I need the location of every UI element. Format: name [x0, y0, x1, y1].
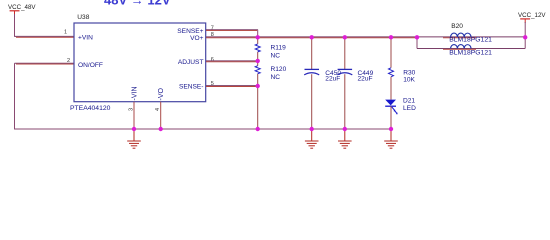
svg-text:-VIN: -VIN — [132, 87, 139, 101]
svg-text:10K: 10K — [403, 76, 415, 83]
ferrite bead B20 upper BLM18PG121 — [443, 23, 492, 44]
svg-text:PTEA404120: PTEA404120 — [70, 105, 111, 112]
svg-text:R30: R30 — [403, 69, 415, 76]
pin 2 number — [67, 58, 70, 64]
junction bus pin3 — [132, 127, 136, 131]
ground under C450 — [305, 129, 319, 148]
wire left vertical to ground bus — [14, 63, 16, 129]
junction bus C450 — [310, 127, 314, 131]
svg-text:BLM18PG121: BLM18PG121 — [449, 50, 492, 57]
svg-text:ADJUST: ADJUST — [178, 59, 204, 66]
pin 8 number — [211, 32, 214, 38]
svg-text:VCC_48V: VCC_48V — [8, 4, 36, 11]
junction VO+ / SENSE+ — [256, 35, 260, 39]
junction R30 top — [389, 35, 393, 39]
pin 7 number — [211, 26, 214, 32]
wire pin4 — [160, 102, 162, 129]
pin 4 number — [155, 108, 161, 111]
pin 6 number — [211, 57, 214, 63]
svg-text:NC: NC — [271, 52, 281, 59]
ground under C449 — [338, 129, 352, 148]
svg-text:3: 3 — [128, 108, 134, 111]
svg-text:+VIN: +VIN — [78, 35, 93, 42]
pin 1 number — [64, 30, 67, 36]
svg-text:R119: R119 — [271, 44, 287, 51]
resistor R120 — [255, 66, 286, 81]
junction C449 top — [343, 35, 347, 39]
svg-text:LED: LED — [403, 105, 416, 112]
wire resistor chain vertical — [257, 37, 259, 129]
svg-text:R120: R120 — [271, 66, 287, 73]
capacitor C450 — [304, 37, 341, 129]
svg-text:-VO: -VO — [158, 88, 165, 101]
junction bus D21 — [389, 127, 393, 131]
wire pin1 +VIN horizontal — [15, 35, 75, 38]
junction bus C449 — [343, 127, 347, 131]
wire pin5 SENSE- — [206, 85, 258, 88]
svg-text:ON/OFF: ON/OFF — [78, 62, 103, 69]
wire pin8 VO+ rail — [206, 36, 525, 39]
ferrite bead B20 lower BLM18PG121 — [443, 45, 492, 57]
wire pin2 ON/OFF horizontal — [15, 62, 75, 65]
junction C450 top — [310, 35, 314, 39]
ground under D21 — [384, 129, 398, 148]
svg-text:U38: U38 — [77, 14, 89, 21]
wire VCC_48V vertical — [14, 14, 16, 37]
junction SENSE- — [256, 84, 260, 88]
svg-text:NC: NC — [271, 74, 281, 81]
junction ADJUST — [256, 59, 260, 63]
power symbol VCC_12V — [518, 12, 546, 37]
svg-text:VCC_12V: VCC_12V — [518, 12, 546, 19]
ground under pin3 — [127, 129, 141, 148]
pin 3 number — [128, 108, 134, 111]
svg-text:48V → 12V: 48V → 12V — [104, 0, 171, 8]
svg-text:1: 1 — [64, 30, 67, 36]
junction bead branch — [415, 35, 419, 39]
junction bus resistor chain — [256, 127, 260, 131]
svg-text:VO+: VO+ — [190, 35, 204, 42]
wire pin7 SENSE+ — [206, 30, 258, 38]
svg-text:4: 4 — [155, 108, 161, 111]
title (clipped at top) — [104, 0, 171, 8]
junction bus pin4 — [159, 127, 163, 131]
power symbol VCC_48V — [8, 4, 36, 15]
wire bead lower branch — [417, 37, 525, 48]
svg-text:BLM18PG121: BLM18PG121 — [449, 37, 492, 44]
wire pin6 ADJUST — [206, 60, 258, 63]
svg-text:22uF: 22uF — [358, 76, 373, 83]
pin 5 number — [211, 81, 214, 87]
svg-text:2: 2 — [67, 58, 70, 64]
LED D21 — [385, 77, 416, 129]
svg-text:B20: B20 — [451, 23, 463, 30]
op-amp U38 (IC box PTEA404120) — [70, 14, 206, 112]
svg-text:D21: D21 — [403, 98, 415, 105]
wire pin3 — [133, 102, 135, 129]
resistor R119 — [255, 44, 286, 59]
resistor R30 — [389, 37, 416, 83]
junction VCC_12V drop — [523, 35, 527, 39]
svg-text:22uF: 22uF — [325, 76, 340, 83]
capacitor C449 — [337, 37, 373, 129]
svg-text:SENSE-: SENSE- — [179, 83, 204, 90]
wire ground bus — [14, 128, 392, 130]
